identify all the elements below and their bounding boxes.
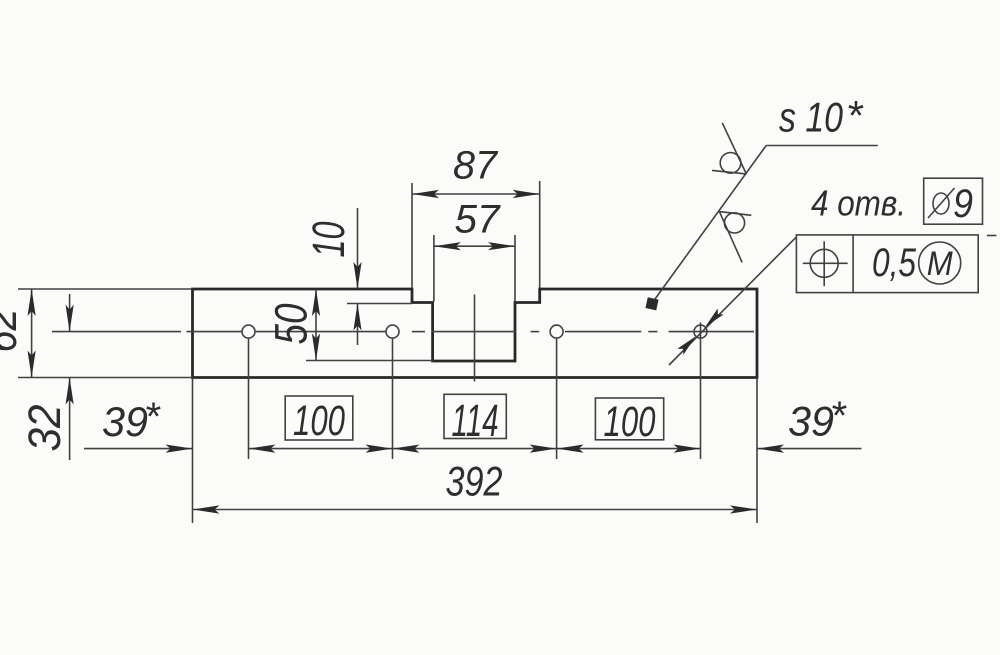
hole 1 extension line xyxy=(248,339,250,460)
dimension 57 line xyxy=(434,245,515,247)
dia symbol xyxy=(933,193,949,214)
chain dimension line 100-114-100 xyxy=(249,448,701,450)
dimension 10 text xyxy=(303,222,354,258)
hole 2 xyxy=(386,325,399,338)
hole 3 xyxy=(550,325,563,338)
step extension line for dim 10 xyxy=(347,303,412,305)
position symbol xyxy=(803,241,848,286)
dimension 50 line xyxy=(315,289,317,361)
tolerance frame xyxy=(796,235,978,293)
svg-text:0,5: 0,5 xyxy=(872,241,917,285)
dimension 392 line xyxy=(193,509,758,511)
dimension 62 line xyxy=(31,289,33,378)
svg-text:*: * xyxy=(144,395,161,439)
circled M modifier xyxy=(919,242,961,284)
chain dimension line right 39* xyxy=(757,448,862,450)
hole 4 xyxy=(694,325,707,338)
svg-text:*: * xyxy=(846,92,864,139)
hole 1 xyxy=(242,325,255,338)
dimension 10 upper arrow xyxy=(357,208,359,289)
hole 4 extension line xyxy=(700,341,702,459)
top edge extension left xyxy=(18,288,193,290)
bottom edge extension left xyxy=(18,377,193,379)
svg-text:M: M xyxy=(927,245,954,283)
svg-text:100: 100 xyxy=(293,397,345,445)
svg-text:4 отв.: 4 отв. xyxy=(811,183,906,224)
svg-text:32: 32 xyxy=(19,405,70,452)
hole 2 extension line xyxy=(392,339,394,460)
svg-text:114: 114 xyxy=(452,395,499,446)
dimension 114 box xyxy=(444,394,506,438)
leader line for s 10* xyxy=(653,146,767,303)
svg-text:392: 392 xyxy=(446,458,503,505)
svg-text:57: 57 xyxy=(455,197,502,241)
dimension 10 lower arrow xyxy=(357,304,359,345)
dimension 100 right box xyxy=(595,398,663,440)
dimension 62 text xyxy=(0,309,26,353)
hole 4 vertical tick xyxy=(700,323,702,342)
dimension 32 line lower xyxy=(69,378,71,461)
hole 3 extension line xyxy=(556,339,558,460)
dimension 32 line upper xyxy=(69,294,71,332)
dash artifact right margin xyxy=(987,235,997,237)
surface symbol upper xyxy=(712,123,746,174)
left edge extension line below xyxy=(192,378,194,524)
svg-text:50: 50 xyxy=(266,304,317,345)
dimension 87 extension lines xyxy=(411,183,413,288)
svg-text:9: 9 xyxy=(953,182,973,226)
svg-text:10: 10 xyxy=(303,222,354,258)
svg-text:s 10: s 10 xyxy=(779,94,844,141)
svg-text:100: 100 xyxy=(604,398,656,446)
dimension 32 text xyxy=(19,405,70,452)
svg-text:87: 87 xyxy=(453,144,499,188)
dimension 87 line xyxy=(412,193,540,195)
surface symbol lower xyxy=(719,212,751,263)
dimension 100 left box xyxy=(285,396,353,440)
slot bottom extension line for dim 50 xyxy=(306,360,433,362)
leader dot xyxy=(645,297,658,310)
leader through hole 4 to tolerance frame xyxy=(669,237,796,365)
slot vertical centerline xyxy=(474,295,476,382)
right edge extension line below xyxy=(756,378,758,524)
svg-text:*: * xyxy=(830,394,847,438)
body outline of plate xyxy=(193,289,758,378)
dimension 50 text xyxy=(266,304,317,345)
dia 9 box xyxy=(924,178,983,224)
svg-text:39: 39 xyxy=(788,398,834,445)
chain dimension line left 39* xyxy=(84,448,193,450)
centerline axis xyxy=(52,331,754,333)
dimension 57 extension lines xyxy=(433,235,435,302)
svg-text:62: 62 xyxy=(0,309,26,353)
svg-text:39: 39 xyxy=(102,398,148,445)
